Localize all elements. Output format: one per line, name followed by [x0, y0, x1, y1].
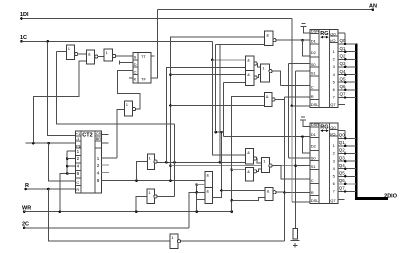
svg-text:&: &: [206, 189, 209, 194]
svg-text:Q2: Q2: [340, 54, 347, 59]
riser x=215.7 from direction line up to G5 input line: [215, 45, 217, 133]
junction -1 wire to NAND feedback riser x=33.3: [32, 142, 35, 145]
wire G11 second input stub: [197, 199, 205, 201]
svg-text:R: R: [311, 94, 314, 99]
bracket vertical for counter data inputs: [66, 151, 68, 174]
svg-text:DSL: DSL: [311, 198, 320, 203]
wire top line y=44.6 to NAND G5 second input: [216, 44, 265, 46]
inverter G13 (1): [170, 234, 178, 249]
junction G5 output to bracket for D2: [301, 39, 304, 42]
NAND gate G5 (&): [265, 31, 273, 46]
wire S0 riser x=288.7 (top S0 and bottom S0): [288, 64, 290, 158]
wire G9b output jog to OR G10 second input: [257, 169, 262, 171]
wire riser x=136.5 to G8 input: [137, 162, 148, 181]
junction 1C at x=47.7: [46, 40, 49, 43]
register RG1 (top) body: [310, 30, 338, 108]
wire G10 output to bottom register C input: [272, 166, 310, 179]
svg-text:Q5.: Q5.: [339, 171, 346, 176]
junction counter-8 line to inverter G8 input riser: [135, 179, 138, 182]
wire -1 net down to counter C input: [49, 143, 76, 181]
wire x=212.4 continues down to NAND G9a input: [212, 60, 245, 155]
counter borrow output stub BR: [101, 142, 108, 144]
svg-text:D2: D2: [311, 144, 317, 149]
RG1 Q0 stub top right: [338, 32, 345, 34]
svg-text:C: C: [311, 85, 314, 90]
RG2 bottom right stub: [338, 199, 345, 201]
wire RG2 output Q1. to bus: [338, 145, 356, 147]
counter CT2 body: [75, 131, 101, 193]
svg-text:K: K: [134, 77, 137, 82]
wire G15 first input from G11 riser: [220, 189, 223, 192]
wire reset rail bottom to inverter G13 output: [181, 240, 285, 242]
svg-text:Q2.: Q2.: [339, 148, 346, 153]
bracket wire to bottom register second data pin: [303, 137, 311, 153]
wire G6b third input from riser x=223.4: [223, 82, 245, 84]
wire to top register S1: [296, 70, 310, 72]
RG2 Q0 stub top right: [338, 130, 345, 132]
wire reset rail to top register R: [285, 96, 311, 98]
svg-text:C: C: [311, 178, 314, 183]
ground bar under resistor: [291, 240, 300, 242]
wire RG2 output Q5. to bus: [338, 175, 356, 177]
svg-text:Q4.: Q4.: [339, 163, 346, 168]
counter right cell dividers: [95, 135, 101, 137]
svg-text:S: S: [134, 55, 137, 60]
svg-text:C: C: [76, 180, 79, 185]
wire to bottom register S1: [296, 165, 310, 167]
svg-text:S1: S1: [311, 164, 317, 169]
svg-text:C: C: [134, 69, 137, 74]
counter-8 line tail into G11a input: [204, 180, 206, 182]
svg-text:DSR: DSR: [311, 29, 320, 34]
svg-text:Q7.: Q7.: [339, 186, 346, 191]
plus symbol below ground bar: [293, 244, 297, 246]
AND gate G15 (&): [265, 187, 273, 200]
wire 1DI horizontal y=18.5 to x=291.8: [22, 18, 292, 20]
svg-text:Q6: Q6: [340, 84, 347, 89]
direction line y=132.1 from riser x=215.7: [216, 131, 224, 133]
junction WR riser to AND G15 input line: [230, 199, 233, 202]
NAND gate G6b (&): [246, 71, 254, 86]
junction shift line to top register S0 riser... actually to G6a input riser x=166.3: [165, 161, 168, 164]
junction bit-8 riser to gray line through gate gap to S1 net: [169, 164, 172, 167]
wire riser x=33.3 up to AND G2 lower-input line: [33, 61, 86, 143]
wire D input: [120, 62, 133, 64]
junction bit-8 riser to NAND G12 input line: [169, 104, 172, 107]
svg-text:Q0.: Q0.: [339, 133, 346, 138]
constant-1 symbol feeding RG1 DSR pin: [302, 23, 306, 25]
bus 2DIO vertical: [356, 43, 388, 198]
wire G13 input from bottom rail: [147, 240, 170, 242]
junction bracket to data-2: [66, 157, 69, 160]
junction bracket to data-8: [66, 172, 69, 175]
svg-text:R: R: [311, 190, 314, 195]
wire G12 output joins reset rail x=284.5: [275, 98, 285, 100]
wire riser x=166.3 up to G6a input: [166, 68, 245, 163]
junction reset rail to bottom register R: [283, 191, 286, 194]
junction riser to G11 input: [195, 191, 198, 194]
junction shift line to G9a riser x=219.9 from 1C net? (vertical from top): [219, 161, 222, 164]
svg-text:Q6.: Q6.: [339, 178, 346, 183]
wire G11a second input gray stub from 2C/WR riser: [195, 183, 198, 186]
svg-text:Q4: Q4: [340, 69, 347, 74]
svg-text:R: R: [76, 187, 79, 192]
svg-text:&: &: [206, 173, 209, 178]
TT inverse-Q output to AN riser: [151, 10, 158, 79]
svg-text:D1: D1: [311, 132, 317, 137]
svg-text:Q5: Q5: [340, 76, 347, 81]
wire RG2 output Q6. to bus: [338, 183, 356, 185]
svg-text:&: &: [247, 57, 250, 62]
inverter G14 (1): [147, 189, 155, 204]
counter left cell dividers: [75, 135, 80, 137]
counter output 8 long wire: [101, 180, 205, 182]
NAND gate G6a (&): [246, 56, 254, 70]
wire main bit-8 riser x=170.5: [171, 37, 265, 181]
wire RG2 output Q7. to bus: [338, 191, 356, 193]
register RG2 (bottom) body: [310, 123, 338, 204]
wire RG1 output Q2 to bus: [338, 58, 356, 60]
counter carry output stub CR: [101, 133, 108, 135]
wire G9a output jog to OR G10 input: [257, 158, 262, 163]
junction -1 wire down to counter C: [47, 142, 50, 145]
svg-text:S1: S1: [311, 71, 317, 76]
wire 2C riser x=189.2 up to gate feed: [189, 192, 197, 228]
svg-text:Q0: Q0: [330, 125, 336, 130]
junction WR to inverter G14 input riser: [135, 210, 138, 213]
inverter G1 (1): [67, 45, 75, 60]
constant-1 symbol feeding RG2 DSR pin: [301, 116, 305, 118]
svg-text:1DI: 1DI: [20, 12, 29, 18]
svg-text:CT2: CT2: [82, 133, 92, 139]
riser x=223.4 down to bottom register D line: [222, 83, 224, 137]
resistor R1: [293, 229, 298, 239]
RG1 bottom right stub: [338, 104, 345, 106]
junction G11 output riser on direction line: [220, 131, 223, 134]
inverter G4 (1) below TT: [124, 101, 132, 116]
svg-text:&: &: [247, 150, 250, 155]
wire shift-net riser x=56.3 down to long feedback line y=124: [56, 52, 174, 125]
svg-text:Q7: Q7: [330, 198, 336, 203]
inverter G8 (1): [147, 154, 154, 169]
svg-text:S0: S0: [311, 155, 317, 160]
NAND gate G11 (&): [205, 188, 213, 204]
wire RG2 output Q0. to bus: [338, 137, 356, 139]
TT pin cell dividers: [133, 59, 138, 61]
wire 1C drop to counter +1 input: [48, 41, 76, 135]
wire G7 output to clock line: [272, 71, 280, 85]
wire K input stub: [129, 77, 133, 79]
pullup net riser x=295.6 from S1 wire to resistor: [295, 71, 297, 229]
inverter G3 (1): [104, 49, 112, 61]
wire RG2 output Q3. to bus: [338, 160, 356, 162]
junction clock line pullup branch? none; wire clock to top register C: [280, 85, 310, 87]
wire AN horizontal to right edge: [158, 9, 373, 11]
reset rail vertical x=284.5: [284, 97, 286, 241]
junction D-feed bracket at bottom register: [301, 136, 304, 139]
svg-text:D1: D1: [311, 38, 317, 43]
wire G14 output up to shift line: [157, 195, 174, 197]
svg-text:Q7: Q7: [340, 92, 347, 97]
junction R wire to bottom rail: [47, 188, 50, 191]
OR gate G10 (1): [262, 158, 270, 173]
wire G3 output to TT S input: [116, 55, 133, 57]
wire G4 input from counter output 1: [117, 109, 124, 158]
svg-text:2DIO: 2DIO: [384, 194, 398, 200]
svg-text:RG: RG: [320, 31, 328, 37]
wire G1 input from shift-net riser x=56.3: [56, 51, 66, 53]
wire G5 output to top register D input: [276, 39, 310, 41]
wire G1 output to G2: [78, 53, 87, 55]
svg-text:I/O: I/O: [330, 38, 335, 43]
wire RG1 output Q4 to bus: [338, 74, 356, 76]
svg-text:&: &: [266, 94, 269, 99]
svg-text:TF: TF: [141, 76, 146, 81]
junction bit-8 riser to NAND G6b input: [169, 73, 172, 76]
wire G8 output shift line y=162.3: [157, 161, 246, 163]
wire feedback riser x=174.5 (joins y=124 line, down to G14 output): [174, 124, 176, 196]
svg-text:DSR: DSR: [311, 122, 320, 127]
wire WR riser x=196.7 between WR line and gate inputs: [196, 185, 198, 212]
junction WR to gate riser x=196.7: [195, 210, 198, 213]
wire RG1 output Q5 to bus: [338, 81, 356, 83]
wire RG1 output Q3 to bus: [338, 66, 356, 68]
svg-text:Q3.: Q3.: [339, 155, 346, 160]
svg-text:D2: D2: [311, 50, 317, 55]
wire G6a output jog to OR G7 input: [257, 63, 261, 67]
wire 1C horizontal y=41.3 to x=212.4: [22, 40, 213, 42]
svg-text:D: D: [134, 62, 137, 67]
wire counter data-1 input from bracket: [67, 150, 75, 152]
wire G15 output to bottom register R line: [276, 191, 284, 193]
wire G2 output to G3: [98, 56, 104, 58]
wire G14 input from 2C riser x=136.2: [136, 197, 147, 212]
wire 1C drop at x=212.4 to NAND G6a input: [211, 41, 213, 60]
wire G6b output jog to OR G7 second input: [257, 74, 261, 77]
wire serial tee to register DSL pin: [292, 105, 310, 107]
svg-text:&: &: [88, 52, 91, 57]
wire 2C horizontal y=227.8: [24, 227, 189, 229]
svg-text:RG: RG: [320, 124, 328, 130]
junction 1DI serial tee to top register SL pin: [291, 105, 294, 108]
TT D input constant-1 tick: [119, 61, 121, 65]
junction bracket to data-4: [66, 165, 69, 168]
TT Q output stub: [151, 55, 155, 57]
counter output 2 stub: [101, 164, 109, 166]
flip-flop TT body: [133, 52, 151, 83]
NAND gate G9a (&): [246, 149, 254, 164]
svg-text:Q7: Q7: [330, 102, 336, 107]
svg-text:Q1: Q1: [340, 46, 347, 51]
OR gate G7 (1): [261, 64, 270, 82]
wire to bottom register S0: [289, 157, 310, 159]
wire G12 first input from WR riser x=231.7: [232, 97, 265, 212]
counter output 4 stub: [101, 171, 109, 173]
wire 1DI serial gray continuation to bottom register SL: [291, 106, 293, 202]
wire D-feed line to bottom register: [223, 136, 310, 138]
bracket wire to top register second data pin: [303, 40, 311, 56]
svg-text:&: &: [247, 169, 250, 174]
svg-text:&: &: [267, 189, 270, 194]
svg-text:Q0: Q0: [330, 31, 336, 36]
counter output 1 wire to inverter G4 riser: [101, 157, 117, 159]
wire C input from G4 output zigzag: [117, 71, 140, 110]
NAND gate G12 (&): [265, 93, 272, 107]
svg-text:&: &: [247, 72, 250, 77]
wire RG1 output Q7 to bus: [338, 97, 356, 99]
svg-text:DSL: DSL: [311, 102, 320, 107]
wire RG2 output Q4. to bus: [338, 168, 356, 170]
NAND gate G9b (&): [246, 168, 254, 181]
wire to top register S0: [289, 63, 310, 65]
svg-text:I/O: I/O: [330, 131, 335, 136]
wire R net down to bottom rail y=241.2: [48, 189, 147, 241]
wire WR riser to counter data inputs 1-2-4-8: [60, 174, 67, 212]
svg-text:2C: 2C: [22, 222, 29, 228]
svg-text:BR: BR: [96, 136, 102, 141]
junction WR to counter preset riser x=59.9: [59, 210, 62, 213]
wire RG2 output Q2. to bus: [338, 153, 356, 155]
wire RG1 output Q0 to bus: [338, 43, 356, 45]
wire counter -1 input from left: [26, 142, 76, 144]
wire RG1 output Q1 to bus: [338, 51, 356, 53]
junction WR to riser x=231.7: [230, 210, 233, 213]
AND gate G2 (&): [86, 50, 94, 64]
svg-text:Q3: Q3: [340, 61, 347, 66]
svg-text:&: &: [266, 32, 269, 37]
svg-text:Q1.: Q1.: [339, 140, 346, 145]
svg-text:S0: S0: [311, 62, 317, 67]
wire G11 output riser to bus-direction line: [213, 132, 222, 197]
junction WR riser to NAND G9b input gray line: [230, 168, 233, 171]
wire RG1 output Q6 to bus: [338, 89, 356, 91]
junction counter-8 line to main riser x=170.5: [169, 179, 172, 182]
svg-text:Q0: Q0: [340, 38, 347, 43]
wire WR horizontal y=211.6: [24, 211, 232, 213]
wire R horizontal y=189 into counter R pin: [26, 188, 76, 190]
wire 1DI vertical drop x=291.8 down to serial tee: [291, 19, 293, 106]
junction shift line to feedback riser x=174.5: [173, 161, 176, 164]
junction pullup riser to bottom S1 line: [294, 164, 297, 167]
svg-text:TT: TT: [141, 54, 146, 59]
NAND gate G11a (&): [205, 172, 213, 188]
